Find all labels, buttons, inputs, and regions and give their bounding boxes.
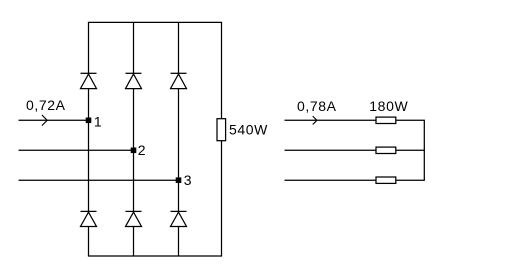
wire column phase 3 upper segment (178, 22, 180, 73)
wire column 1 mid segment (88, 89, 90, 212)
resistor 540W (217, 119, 226, 141)
current arrow right phase 1 (313, 116, 317, 124)
current arrow on phase 1 (42, 115, 47, 126)
svg-text:2: 2 (138, 142, 146, 158)
svg-text:1: 1 (94, 113, 102, 129)
wire right circuit phase 1 to bus (396, 119, 425, 121)
wire right circuit phase 3 to bus (396, 179, 425, 181)
wire phase input 3 (19, 179, 179, 181)
diode D4 (bottom, phase 1) (81, 211, 97, 226)
wire column 2 lower segment (133, 227, 135, 257)
wire phase input 2 (19, 149, 134, 151)
wire column 1 lower segment (88, 227, 90, 257)
wire column phase 2 upper segment (133, 22, 135, 73)
wire right circuit phase 3 (285, 179, 377, 181)
wire column 3 mid segment (178, 89, 180, 212)
wire column 2 mid segment (133, 89, 135, 212)
svg-text:3: 3 (184, 172, 192, 188)
wire right circuit phase 2 to bus (396, 149, 425, 151)
diode D5 (bottom, phase 2) (126, 211, 142, 226)
resistor 180W phase 1 (376, 117, 396, 123)
diode D2 (top, phase 2) (126, 73, 142, 88)
wire column 3 lower segment (178, 227, 180, 257)
diode D6 (bottom, phase 3) (171, 211, 187, 226)
svg-text:540W: 540W (229, 121, 268, 137)
svg-text:0,72A: 0,72A (26, 97, 66, 113)
wire left column phase 1 upper segment (88, 22, 90, 73)
resistor phase 3 (376, 177, 396, 183)
node 2 junction dot (131, 148, 137, 154)
svg-text:180W: 180W (369, 98, 408, 114)
resistor phase 2 (376, 147, 396, 153)
svg-text:0,78A: 0,78A (297, 98, 337, 114)
diode D3 (top, phase 3) (171, 73, 187, 88)
wire right circuit phase 2 (285, 149, 377, 151)
node 3 junction dot (176, 177, 182, 183)
wire phase input 1 (19, 119, 89, 121)
wire right column lower segment (221, 141, 223, 256)
wire right circuit phase 1 (285, 119, 377, 121)
wire right star bus (423, 120, 425, 180)
wire top rail (+) (88, 21, 222, 23)
wire bottom rail (-) (88, 255, 222, 257)
wire right column upper segment (to load) (221, 22, 223, 118)
diode D1 (top, phase 1) (81, 73, 97, 88)
node 1 junction dot (86, 118, 92, 124)
